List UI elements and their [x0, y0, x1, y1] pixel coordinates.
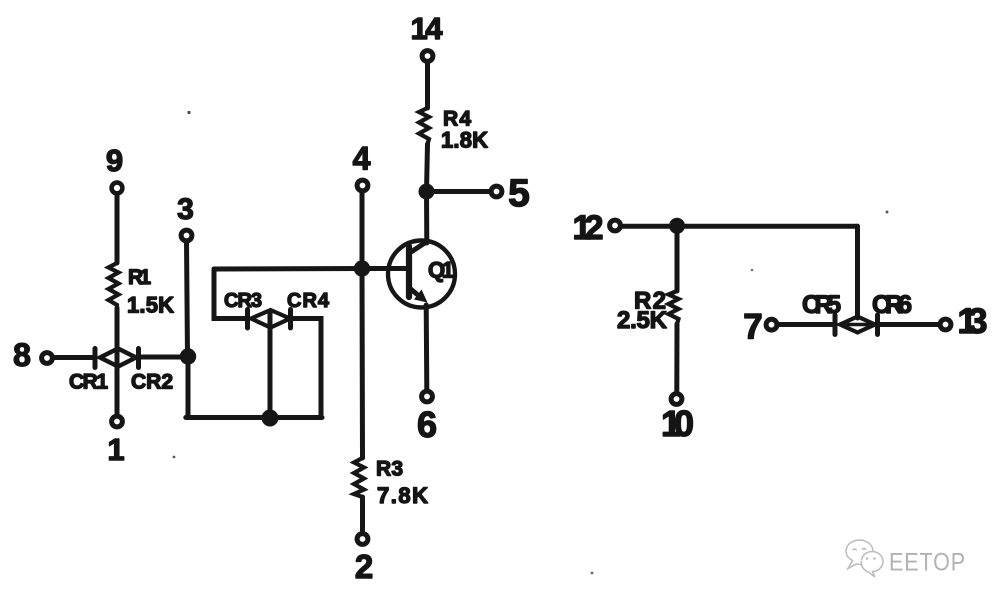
diode pair CR5 CR6 diamond	[840, 317, 875, 333]
terminal pin 4	[357, 180, 368, 191]
svg-text:CR5: CR5	[802, 291, 841, 319]
svg-text:7.8K: 7.8K	[377, 483, 428, 508]
svg-text:1: 1	[107, 432, 124, 467]
svg-text:8: 8	[13, 337, 31, 373]
terminal pin 9	[112, 183, 123, 194]
wire R1 to pin1 through CR1/CR2 center	[115, 308, 120, 416]
EETOP watermark logo icon	[846, 540, 883, 577]
svg-text:2: 2	[355, 548, 373, 585]
wire pin14 to R4	[425, 62, 430, 109]
node B junction dot on bottom bus	[262, 410, 279, 427]
wire node A down to bottom bus	[186, 357, 191, 418]
diode CR3 cathode bar	[245, 310, 250, 329]
wire top of CR3/CR4 loop	[214, 266, 362, 272]
wire collector node down to Q1	[424, 192, 429, 244]
terminal pin 2	[357, 534, 368, 545]
wire right vertical down to CR5/CR6	[855, 226, 860, 318]
diode CR1 cathode bar	[93, 349, 98, 368]
svg-text:4: 4	[353, 141, 371, 177]
transistor Q1 circle	[388, 241, 455, 308]
scan speck	[751, 269, 754, 272]
wire pin12 to right vertical	[621, 224, 858, 229]
wire CR4 to right side of loop	[291, 319, 322, 418]
wire pin9 to R1	[115, 194, 120, 264]
svg-text:CR1: CR1	[69, 371, 108, 394]
scan speck	[187, 111, 190, 114]
svg-text:CR6: CR6	[872, 291, 912, 319]
svg-text:3: 3	[177, 193, 194, 226]
wire base node down to R3	[360, 269, 366, 459]
terminal pin 7	[766, 319, 777, 330]
wire pin4 down to base node	[360, 191, 365, 269]
terminal pin 12	[610, 220, 621, 231]
svg-text:CR2: CR2	[131, 371, 173, 394]
svg-text:R3: R3	[376, 458, 403, 481]
wire node C down to R2	[675, 226, 680, 291]
svg-text:7: 7	[743, 308, 762, 347]
transistor Q1 emitter arrowhead	[414, 290, 428, 303]
transistor Q1 base bar	[406, 247, 412, 298]
terminal pin 6	[422, 391, 433, 402]
scan speck	[173, 456, 176, 459]
terminal pin 10	[671, 394, 682, 405]
svg-text:10: 10	[661, 403, 694, 444]
node A junction dot	[180, 348, 196, 364]
terminal pin 14	[422, 51, 433, 62]
transistor Q1 collector stroke	[410, 242, 428, 254]
svg-text:Q1: Q1	[428, 258, 454, 283]
diode CR6 cathode bar	[875, 315, 880, 335]
svg-text:EETOP: EETOP	[889, 549, 966, 577]
node C junction dot	[669, 218, 685, 234]
svg-text:5: 5	[508, 172, 530, 215]
diode CR4 cathode bar	[288, 310, 293, 329]
wire left side of CR3/CR4 loop	[214, 269, 247, 319]
wire Q1 emitter down to pin6	[424, 305, 430, 391]
svg-text:12: 12	[573, 209, 604, 247]
resistor R3	[354, 458, 364, 497]
terminal pin 3	[181, 230, 192, 241]
wire R2 to pin10	[674, 324, 679, 393]
collector node junction dot	[419, 184, 435, 200]
wire CR2 to node A	[139, 355, 189, 360]
svg-text:1.5K: 1.5K	[127, 293, 174, 318]
svg-text:9: 9	[106, 143, 123, 178]
wire through CR5/CR6 center	[840, 323, 875, 327]
wire CR3/CR4 center down to node B	[268, 312, 273, 418]
svg-text:CR4: CR4	[287, 290, 330, 312]
svg-text:CR3: CR3	[224, 290, 262, 312]
diode pair CR1 CR2 diamond	[100, 349, 136, 367]
wire pin8 to CR1	[53, 355, 96, 360]
terminal pin 1	[112, 416, 123, 427]
transistor Q1 emitter stroke	[410, 288, 423, 299]
wire base node to transistor base	[362, 266, 408, 271]
base node junction dot	[354, 260, 370, 276]
resistor R2	[669, 291, 679, 324]
wire R4 to collector node	[427, 144, 428, 192]
diode CR2 cathode bar	[136, 349, 141, 368]
terminal pin 13	[940, 319, 951, 330]
wire pin3 down to node A	[187, 241, 188, 357]
wire R3 to pin2	[360, 497, 365, 533]
diode pair CR3 CR4 diamond	[251, 310, 290, 328]
svg-text:R1: R1	[128, 266, 151, 289]
svg-text:6: 6	[417, 404, 437, 445]
terminal pin 8	[42, 353, 53, 364]
scan speck	[886, 211, 889, 214]
terminal pin 5	[491, 186, 502, 197]
wire CR6 to pin13	[878, 322, 940, 327]
scan speck	[591, 572, 594, 575]
svg-text:14: 14	[411, 11, 444, 46]
svg-text:13: 13	[958, 302, 988, 341]
resistor R4	[419, 108, 429, 144]
resistor R1	[109, 263, 119, 308]
wire pin7 to CR5	[778, 322, 836, 327]
wire bottom bus	[186, 415, 322, 420]
diode CR5 cathode bar	[833, 315, 838, 335]
wire collector node to pin5	[427, 189, 491, 194]
svg-text:2.5K: 2.5K	[617, 307, 668, 334]
svg-text:1.8K: 1.8K	[441, 128, 488, 153]
